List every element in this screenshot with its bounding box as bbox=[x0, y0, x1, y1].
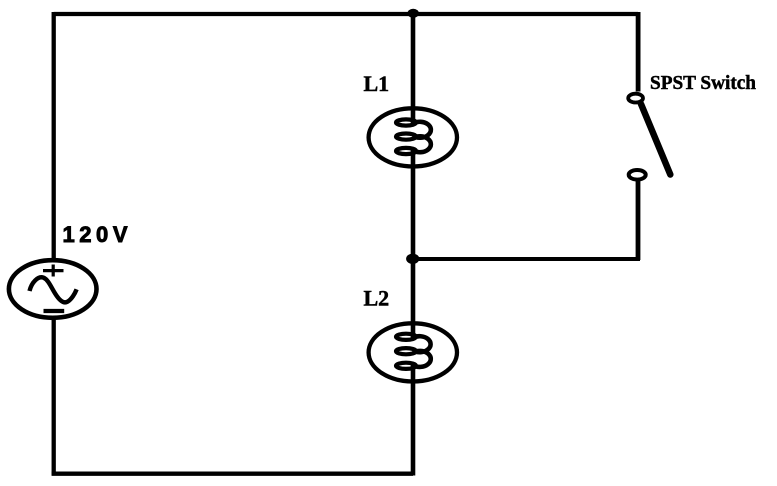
svg-text:SPST Switch: SPST Switch bbox=[650, 72, 756, 94]
svg-text:L1: L1 bbox=[364, 71, 390, 96]
svg-text:120V: 120V bbox=[63, 222, 128, 247]
svg-text:L2: L2 bbox=[364, 286, 390, 311]
